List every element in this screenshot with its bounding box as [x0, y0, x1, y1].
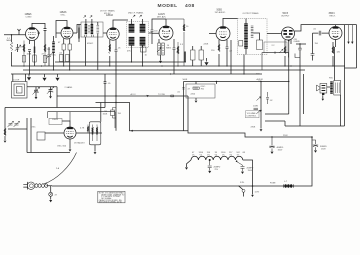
IF transformer T2 outline: [127, 22, 149, 48]
loop antenna: [12, 82, 28, 99]
svg-text:2.2: 2.2: [272, 45, 276, 47]
pot arrow: [257, 97, 261, 101]
svg-text:VOLUME: VOLUME: [247, 113, 256, 115]
res in can 2: [96, 125, 98, 142]
svg-text:OSC: OSC: [52, 55, 57, 57]
ground can: [94, 152, 97, 154]
resistor R7b boxed: [162, 43, 165, 55]
svg-text:25V: 25V: [215, 169, 219, 171]
tube V6 50C5 output: [282, 27, 295, 40]
speaker magnet: [322, 93, 324, 95]
wire avc y96: [57, 95, 188, 97]
svg-text:150V: 150V: [321, 149, 326, 151]
lamp ground: [49, 200, 52, 202]
ground mid: [205, 58, 208, 65]
switch SW1: [242, 189, 245, 192]
svg-text:OSC.: OSC.: [61, 14, 66, 16]
V3 leads down: [110, 40, 116, 70]
T1 leads: [86, 19, 98, 70]
ground C16: [208, 171, 211, 173]
adjust arrow: [90, 16, 92, 18]
svg-text:A.V.C.: A.V.C.: [131, 93, 137, 96]
cathode loop wire: [262, 53, 289, 70]
T2 coil TL: [129, 25, 135, 33]
svg-text:DET. AVC: DET. AVC: [157, 15, 166, 18]
pilot lamp: [49, 192, 53, 196]
V2 grid loop wire: [56, 21, 67, 39]
svg-text:117V: 117V: [255, 192, 260, 194]
right vertical bus A: [344, 25, 346, 126]
resistor R16: [78, 28, 80, 39]
svg-text:CONV.: CONV.: [26, 16, 33, 18]
V5 plate wire to trans: [223, 18, 238, 26]
twisted cord: [35, 184, 48, 188]
ground C17: [241, 172, 244, 174]
antenna input wire: [4, 34, 26, 36]
svg-text:150: 150: [211, 50, 215, 52]
tap cap C16: [208, 160, 212, 171]
small box lower left: [37, 132, 45, 140]
capacitor C9 line: [319, 31, 321, 36]
T1 tert coil: [97, 26, 100, 34]
svg-text:1ST AUDIO: 1ST AUDIO: [74, 142, 85, 145]
volume control label box: [246, 111, 260, 118]
V8 ground: [69, 149, 72, 151]
svg-text:S.W.: S.W.: [240, 182, 245, 184]
junction dot: [271, 136, 272, 137]
boxed resistors mid: [191, 50, 196, 60]
wire: short bus y62: [55, 61, 186, 63]
wire y107.5: [5, 107, 105, 109]
svg-text:.02: .02: [270, 100, 274, 102]
svg-text:150: 150: [118, 113, 122, 115]
notes box: [98, 191, 125, 203]
svg-text:10: 10: [186, 26, 189, 28]
svg-text:150V: 150V: [278, 150, 283, 152]
resistor R11: [332, 46, 334, 54]
tuning cap C10: [34, 87, 38, 96]
V8 top wire: [62, 121, 70, 127]
resistor R12: [4, 128, 6, 136]
tube V5 50B5 audio: [209, 33, 216, 35]
out trans primary: [244, 24, 248, 48]
antenna symbol: [18, 29, 21, 35]
shield can box: [89, 122, 101, 145]
wire y86.7: [27, 86, 57, 88]
svg-text:MEG: MEG: [7, 40, 12, 42]
can ground lead: [94, 145, 96, 152]
power line: [47, 185, 295, 187]
wire y114: [265, 113, 289, 115]
junction dot x116: [115, 95, 116, 96]
dark resistor overlays: [5, 25, 333, 136]
svg-text:.02: .02: [59, 53, 63, 55]
V8 bottom lead: [69, 139, 71, 149]
svg-text:RECT.: RECT.: [330, 15, 336, 17]
wire: main filament bus y66: [11, 65, 345, 67]
V1 top lead: [32, 23, 47, 44]
wire x285 drop: [284, 121, 286, 126]
junction dot: [311, 136, 313, 138]
adjust arrow: [133, 15, 135, 17]
filament resistor chain: [191, 156, 243, 160]
svg-text:.05: .05: [108, 83, 112, 85]
box lead x196: [195, 82, 197, 101]
cap C13: [254, 108, 259, 110]
svg-text:CONTROL: CONTROL: [246, 116, 257, 118]
chain left end ground: [187, 160, 192, 167]
capacitor C1: [28, 50, 31, 52]
power stub arrow: [252, 186, 254, 195]
svg-text:LOOP: LOOP: [14, 80, 20, 82]
cathode box: [264, 42, 287, 53]
svg-text:455KC: 455KC: [87, 43, 94, 45]
pilot lamp lead: [50, 186, 52, 192]
adjust arrow: [84, 16, 86, 18]
ground under R7: [160, 55, 162, 61]
stub x216: [216, 82, 218, 85]
svg-text:2 A: 2 A: [56, 167, 60, 170]
cord to switch curve: [44, 153, 77, 184]
svg-text:L: L: [18, 91, 20, 93]
svg-text:L-7: L-7: [284, 181, 288, 183]
capacitor C7: [173, 48, 176, 50]
svg-text:OSC. 600: OSC. 600: [57, 146, 67, 148]
wire x27: [26, 118, 28, 153]
T2 coil TR: [140, 25, 146, 33]
tube V4 12AV6 det: [159, 26, 173, 40]
trimmer T1: [8, 121, 14, 127]
trimmer T2: [14, 121, 20, 127]
subcircuit top wire: [48, 111, 116, 113]
svg-text:A: A: [38, 91, 40, 94]
junction dot power: [252, 185, 254, 187]
wire: bus y70: [23, 69, 305, 71]
V6 cathode return down: [288, 40, 290, 114]
comp on avc: [171, 95, 174, 97]
loop leads: [13, 74, 26, 82]
svg-text:150K: 150K: [103, 114, 108, 116]
wire y126: [285, 125, 345, 127]
resistor R6: [109, 44, 111, 54]
return bus: [96, 96, 313, 186]
V5 leads down: [219, 40, 227, 66]
resistor R3 oscillator: [44, 44, 46, 66]
avc arrow: [146, 95, 148, 97]
svg-text:12BA6: 12BA6: [106, 14, 114, 17]
T2 coil BR: [140, 38, 146, 46]
out trans comp box2: [239, 41, 243, 47]
cap C18: [266, 92, 269, 104]
jog x295: [295, 54, 300, 58]
small box under IFT2: [141, 47, 147, 52]
tube V2 12BA6: [61, 27, 73, 39]
V1 cathode leads: [30, 40, 35, 74]
resistor R5 boxed: [68, 44, 71, 50]
lamp ground lead: [50, 196, 52, 199]
svg-text:.05: .05: [177, 92, 181, 94]
junction dot: [216, 81, 218, 83]
wire x303: [303, 74, 305, 114]
ground C11: [50, 95, 52, 97]
pot ground: [260, 129, 263, 131]
cap C12 x105: [104, 74, 107, 108]
T1 trimmers: [85, 35, 94, 37]
resistor in box: [193, 87, 199, 89]
V7 bottom leads: [333, 40, 336, 67]
coil L1 leads: [53, 36, 55, 70]
resistor R15 column: [166, 19, 184, 66]
wire y121: [265, 120, 285, 122]
svg-text:4.7K: 4.7K: [80, 128, 85, 130]
resistor R10: [284, 46, 286, 54]
resistor R14 boxed: [111, 110, 115, 116]
arrow lead B: [351, 25, 353, 42]
wire box to V6: [267, 33, 282, 35]
ground x5: [4, 141, 7, 143]
svg-text:2200: 2200: [191, 94, 196, 96]
svg-text:408: 408: [185, 3, 195, 9]
tuning cap C11: [49, 87, 53, 95]
right vertical bus B: [345, 25, 357, 68]
svg-text:P.M.: P.M.: [329, 78, 333, 80]
V7 top lead: [330, 25, 357, 27]
svg-text:.05: .05: [313, 29, 317, 31]
ground C14: [271, 152, 274, 154]
svg-text:68: 68: [243, 152, 246, 154]
speaker leads: [323, 47, 341, 126]
V8 right wire: [76, 132, 102, 134]
ground on bus 2: [43, 74, 46, 80]
resistor R4 boxed: [62, 44, 65, 50]
svg-text:FUSE: FUSE: [270, 183, 276, 185]
chain right end: [243, 160, 253, 186]
T1 primary coil: [85, 25, 88, 34]
tube V3 12BA6 IF: [107, 28, 119, 40]
chain tap dot: [209, 159, 211, 161]
svg-text:B: B: [52, 92, 54, 94]
resistor R1 leg: [11, 35, 13, 66]
adjust arrow: [139, 15, 141, 17]
svg-text:MEG: MEG: [166, 47, 171, 49]
svg-text:OUTPUT TRANS.: OUTPUT TRANS.: [243, 12, 260, 15]
wire x57: [56, 87, 58, 108]
res in can 1: [92, 125, 94, 142]
resistor R8: [177, 42, 179, 66]
svg-text:150: 150: [315, 43, 319, 45]
output transformer box: [238, 19, 268, 55]
capacitor C6: [151, 30, 154, 32]
capacitor C5: [115, 50, 118, 52]
tube V8: [64, 127, 76, 139]
coil L1 osc: [52, 42, 55, 53]
ground x196: [195, 101, 198, 103]
wire y82: [184, 81, 290, 83]
svg-text:220K: 220K: [204, 44, 209, 46]
ground bus 3: [56, 74, 59, 80]
svg-text:TO SW.: TO SW.: [158, 94, 166, 96]
V2 left lead: [56, 32, 61, 34]
V3 top lead: [113, 20, 128, 28]
resistor R13: [87, 125, 89, 134]
wire x300: [296, 44, 306, 126]
wire: bus y74: [11, 73, 262, 75]
svg-text:47: 47: [188, 89, 191, 91]
V4 top lead: [165, 19, 167, 26]
filter cap C14: [269, 137, 274, 151]
line filter beads: [283, 184, 293, 187]
resistor R9: [218, 44, 220, 52]
svg-text:.05: .05: [118, 48, 122, 50]
svg-text:SISTORS IN OHMS, 1/2 W.: SISTORS IN OHMS, 1/2 W.: [99, 202, 123, 204]
cap on avc lead: [182, 88, 184, 89]
svg-text:OHMS: OHMS: [294, 41, 301, 43]
wire y152.5: [27, 152, 70, 154]
pot arrow V4: [157, 48, 161, 53]
ground C10: [35, 96, 37, 98]
wire T1 to V3: [103, 32, 107, 34]
resistor R1: [10, 42, 12, 51]
bus junction dots: [23, 65, 24, 66]
can right lead: [100, 103, 102, 122]
left column x5: [4, 108, 6, 141]
junction dot pot: [260, 110, 261, 111]
svg-text:1M: 1M: [104, 111, 107, 113]
wire to tube8: [45, 132, 64, 134]
svg-text:2ND I.F. TRANS.: 2ND I.F. TRANS.: [128, 12, 144, 15]
svg-text:120: 120: [337, 52, 341, 54]
volume box: [186, 84, 215, 98]
svg-text:47: 47: [55, 195, 58, 197]
tube V7 35W4 rect: [329, 27, 342, 40]
out trans leads: [231, 19, 260, 75]
V4 leads down: [159, 39, 174, 74]
arrow lead A: [348, 25, 350, 42]
T1 core: [89, 25, 90, 34]
V2 plate lead to IFT1: [77, 25, 81, 34]
svg-text:100K: 100K: [27, 54, 32, 56]
return bus arrow: [130, 130, 133, 132]
svg-text:500K: 500K: [183, 79, 188, 81]
wire T2 to V4: [152, 19, 166, 33]
svg-text:47: 47: [58, 42, 61, 44]
ground on bus: [28, 74, 31, 80]
volume pot x261: [260, 82, 262, 129]
out trans secondary: [251, 26, 254, 37]
T1 secondary coil: [91, 25, 94, 34]
wire y129: [8, 128, 27, 130]
svg-text:47: 47: [42, 54, 45, 56]
wire x183.5: [183, 82, 185, 132]
junction dots y82: [260, 81, 261, 82]
svg-text:3.3: 3.3: [180, 44, 184, 46]
svg-text:700: 700: [201, 89, 205, 91]
svg-text:10: 10: [145, 55, 148, 57]
svg-text:MODEL: MODEL: [158, 3, 178, 9]
tube V1 12BE6: [26, 28, 39, 41]
small rect above: [49, 119, 62, 125]
V6 leads down: [285, 40, 291, 67]
resistor R7a boxed: [158, 43, 161, 55]
speaker voice coil: [320, 84, 327, 94]
T2 leads: [132, 19, 153, 52]
power plug: [23, 184, 27, 187]
svg-text:OSC: OSC: [31, 127, 36, 129]
svg-text:22K: 22K: [20, 47, 24, 49]
svg-text:1ST AUDIO: 1ST AUDIO: [215, 11, 226, 14]
svg-text:100: 100: [154, 31, 158, 33]
T2 coil BL: [129, 38, 135, 46]
capacitor C8: [226, 47, 229, 49]
svg-text:470K: 470K: [251, 127, 256, 129]
svg-text:1/2W: 1/2W: [253, 106, 258, 108]
V2 leads down: [64, 33, 77, 70]
wire x31: [30, 118, 32, 153]
svg-text:2 GANG: 2 GANG: [65, 86, 73, 89]
svg-text:OUTPUT: OUTPUT: [281, 15, 290, 17]
trimmer cap C2: [46, 53, 53, 59]
svg-text:250V: 250V: [283, 135, 288, 137]
filter cap C15: [312, 140, 318, 150]
svg-text:SW: SW: [256, 74, 259, 76]
T2 bottom leads to bus: [132, 45, 143, 66]
IF transformer T1 can: [81, 22, 103, 37]
row B boxed components: [22, 56, 25, 63]
output trans on speaker: [330, 82, 333, 93]
ground C15: [314, 150, 317, 152]
out trans comp box1: [257, 40, 263, 50]
V6 plate wire: [295, 25, 331, 31]
tap2 lead: [237, 162, 245, 172]
speaker cone: [317, 85, 321, 91]
resistor R2: [23, 41, 25, 67]
svg-text:150V: 150V: [248, 170, 253, 172]
svg-text:47K: 47K: [127, 51, 131, 53]
wire x116: [115, 70, 117, 131]
